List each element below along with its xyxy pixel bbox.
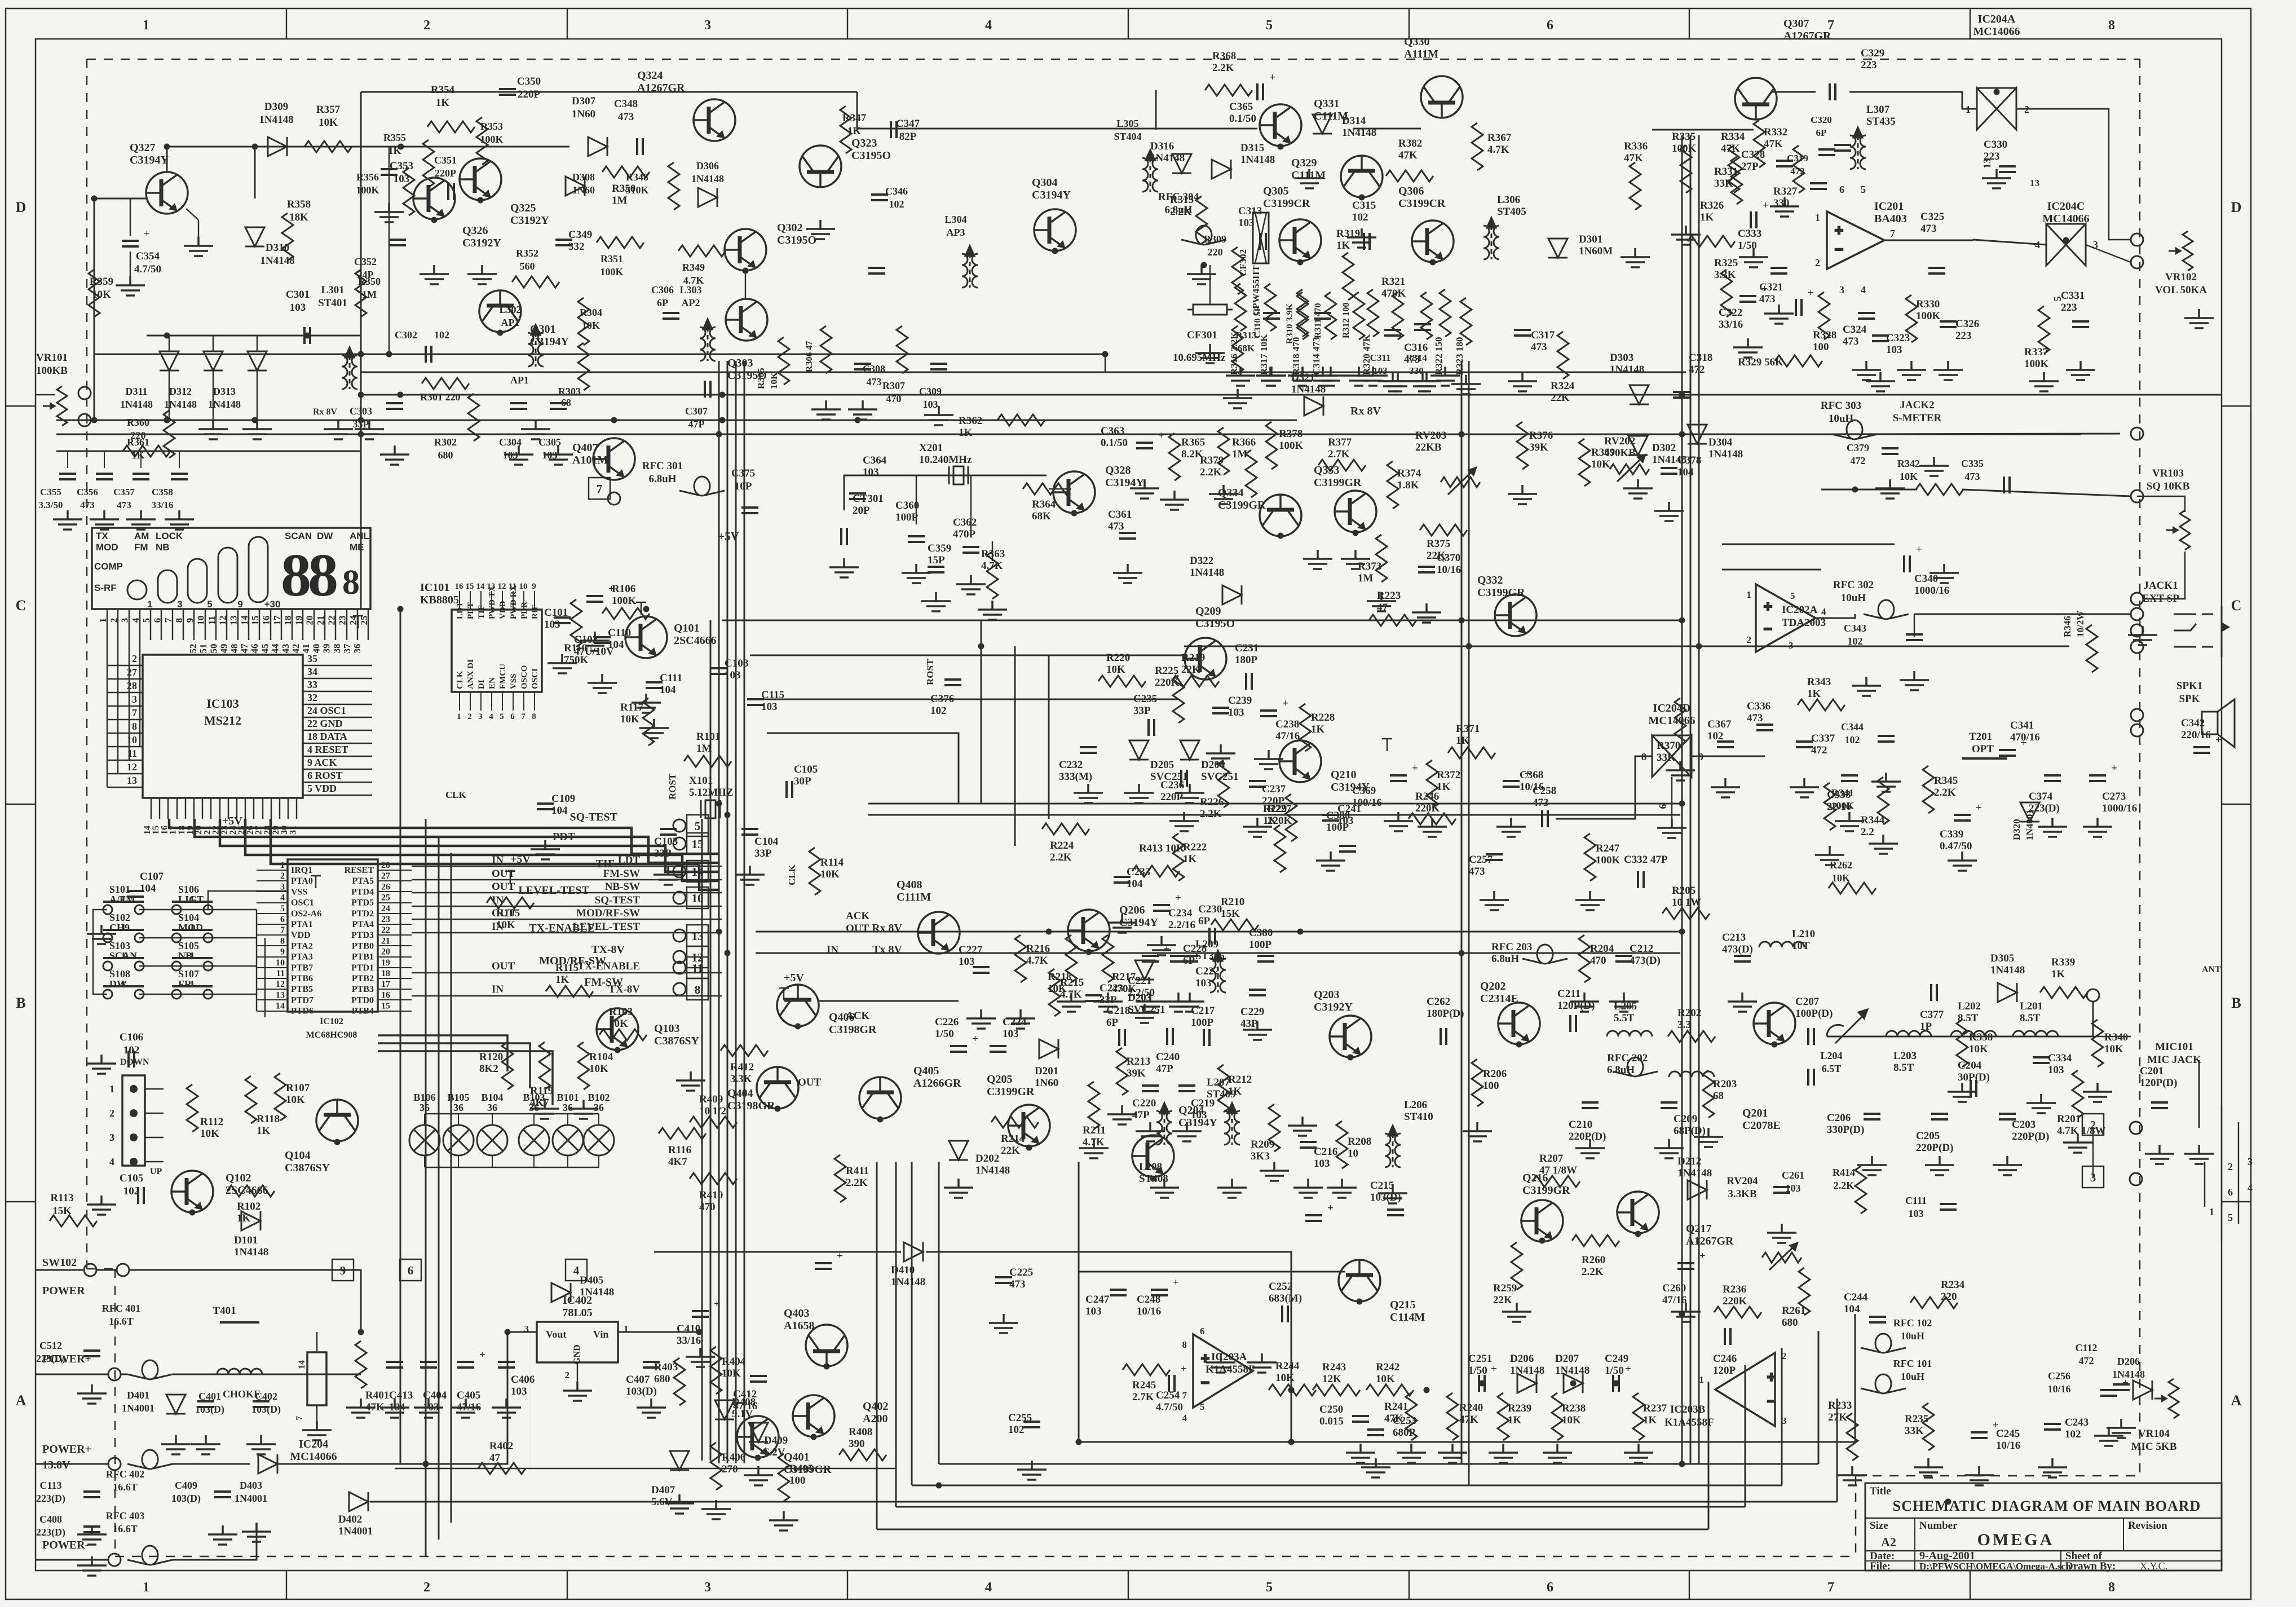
resistor R302 <box>468 394 479 441</box>
resistor R362 <box>997 414 1045 426</box>
svg-text:C336: C336 <box>1747 700 1770 712</box>
wire signal MOD/RF-SW <box>412 919 722 920</box>
svg-text:IC102: IC102 <box>320 1017 343 1026</box>
svg-text:EN: EN <box>488 677 497 689</box>
wire IC204C out <box>2086 245 2131 262</box>
svg-text:+: + <box>1767 1369 1776 1385</box>
IC103 bottom pin wire 18 <box>185 798 187 819</box>
choke RFC 203 <box>1522 945 1568 964</box>
ground <box>2063 1133 2092 1153</box>
resistor R364 <box>1023 483 1070 495</box>
svg-text:LOCK: LOCK <box>156 531 183 541</box>
capacitor C220 <box>1142 1086 1159 1091</box>
svg-text:2.2K: 2.2K <box>1582 1266 1604 1278</box>
svg-text:3: 3 <box>704 18 711 33</box>
wire signal FM-SW <box>412 879 722 881</box>
svg-text:MOD: MOD <box>96 542 118 553</box>
svg-text:X101: X101 <box>689 775 713 787</box>
ground <box>1993 1156 2022 1175</box>
svg-text:R101: R101 <box>696 731 720 743</box>
IC402 ground <box>563 1382 592 1401</box>
svg-text:10K: 10K <box>582 320 600 331</box>
switch S104 MOD <box>172 924 213 942</box>
IC204 pin7 wire <box>316 1405 318 1421</box>
ground <box>1107 1105 1137 1124</box>
svg-text:C101: C101 <box>544 607 568 619</box>
test terminal 14 <box>673 865 686 877</box>
svg-text:R403: R403 <box>654 1361 678 1373</box>
svg-text:RFC 302: RFC 302 <box>1833 579 1874 591</box>
svg-text:10: 10 <box>127 734 137 746</box>
svg-text:R318 470: R318 470 <box>1291 337 1301 375</box>
resistor R247 <box>1584 833 1596 881</box>
svg-text:Q328: Q328 <box>1105 464 1131 477</box>
svg-text:17: 17 <box>272 615 282 625</box>
capacitor C302 <box>426 346 431 363</box>
svg-text:R320 47K: R320 47K <box>1361 334 1372 375</box>
row tick right 3 <box>2222 1201 2251 1203</box>
resistor R204 <box>1579 935 1590 982</box>
IC103 bottom pin wire 30 <box>288 798 289 819</box>
svg-text:2: 2 <box>1747 634 1752 645</box>
svg-text:R371: R371 <box>1456 723 1480 735</box>
B102 bottom lead <box>598 1155 599 1167</box>
VR103 terminal a <box>2131 490 2143 502</box>
test terminal 15 <box>673 837 686 850</box>
LCD pin wire 11 <box>215 609 217 640</box>
mic jack body <box>2205 1105 2238 1241</box>
svg-text:LEVEL-TEST: LEVEL-TEST <box>573 921 641 933</box>
svg-text:Q303: Q303 <box>727 357 753 369</box>
ground <box>1256 367 1285 386</box>
svg-text:1: 1 <box>143 18 149 33</box>
svg-text:R316 2.2K: R316 2.2K <box>1229 332 1239 375</box>
svg-text:9: 9 <box>532 582 536 591</box>
resistor R106 <box>602 608 650 619</box>
resistor R374 <box>1387 461 1398 509</box>
svg-text:180P(D): 180P(D) <box>1427 1008 1464 1020</box>
op-amp IC203A K1A4558F <box>1193 1334 1253 1408</box>
wire signal LEVEL-TEST <box>412 932 722 934</box>
IC102 left pin wire 9 <box>257 956 288 958</box>
svg-text:PTD2: PTD2 <box>351 909 374 919</box>
svg-text:100K: 100K <box>1672 143 1697 155</box>
B103 top lead <box>533 1114 535 1125</box>
transistor Q307 A1267GR <box>1735 78 1777 120</box>
resistor R341 <box>1824 783 1835 830</box>
svg-text:IC204C: IC204C <box>2047 200 2085 213</box>
svg-text:104: 104 <box>140 883 156 894</box>
svg-text:36: 36 <box>563 1102 573 1113</box>
svg-text:6P: 6P <box>657 297 668 308</box>
svg-text:2.2K: 2.2K <box>1200 466 1222 478</box>
IC103 right pin wire 5 <box>303 795 372 796</box>
svg-text:C210: C210 <box>1569 1119 1592 1131</box>
svg-text:R240: R240 <box>1459 1402 1483 1414</box>
svg-text:8: 8 <box>1182 1339 1187 1350</box>
svg-text:R226: R226 <box>1200 796 1224 808</box>
svg-text:R206: R206 <box>1483 1068 1507 1080</box>
svg-text:82P: 82P <box>899 131 917 143</box>
transistor Q203 C3192Y <box>1330 1016 1371 1057</box>
capacitor C341 <box>1999 750 2016 756</box>
ground <box>1508 485 1537 504</box>
capacitor C111 <box>646 682 663 688</box>
svg-text:PDR: PDR <box>520 602 529 619</box>
svg-text:12: 12 <box>498 582 506 591</box>
IC102 right pin wire 20 <box>378 956 412 958</box>
capacitor C109 <box>537 804 554 809</box>
svg-text:R336: R336 <box>1624 140 1648 152</box>
IC101 bottom pin wire 3 <box>480 692 482 711</box>
resistor R219 <box>1172 676 1219 687</box>
switch S108 DW <box>103 981 144 999</box>
svg-text:Q304: Q304 <box>1032 177 1058 189</box>
wire vr103 bottom <box>2143 552 2185 599</box>
svg-text:R307: R307 <box>882 380 905 391</box>
capacitor C357 <box>133 474 149 479</box>
mic terminal 2 <box>2130 1122 2142 1134</box>
svg-text:ANT: ANT <box>2202 965 2221 974</box>
capacitor C235 <box>1149 719 1154 736</box>
potentiometer VR103 wiper <box>2166 530 2177 531</box>
svg-text:683(M): 683(M) <box>1269 1293 1302 1304</box>
svg-text:1K: 1K <box>847 125 862 137</box>
svg-text:6.2V: 6.2V <box>764 1446 785 1458</box>
svg-text:10uH: 10uH <box>1901 1371 1924 1382</box>
svg-text:12: 12 <box>217 616 228 625</box>
resistor R376 <box>1517 422 1528 469</box>
ground <box>1739 248 1768 267</box>
svg-text:C329: C329 <box>1861 47 1884 59</box>
svg-text:11: 11 <box>206 616 217 625</box>
resistor R338 <box>1957 1020 1968 1067</box>
ground <box>1463 1122 1492 1141</box>
svg-text:8: 8 <box>132 721 137 732</box>
svg-text:16: 16 <box>261 616 272 625</box>
svg-text:2.2K: 2.2K <box>1934 787 1956 799</box>
column tick bottom 2 <box>567 1571 568 1599</box>
IC103 left pin wire 7 <box>107 719 143 721</box>
resistor R348 <box>668 162 679 210</box>
wire left vertical bus <box>360 92 362 609</box>
resistor R307 <box>897 326 908 373</box>
svg-text:NB: NB <box>156 542 170 553</box>
svg-text:A1266GR: A1266GR <box>913 1077 961 1089</box>
svg-text:R411: R411 <box>846 1165 869 1177</box>
svg-text:12: 12 <box>127 761 137 773</box>
ground <box>2145 1145 2174 1164</box>
svg-text:R210: R210 <box>1221 896 1244 908</box>
resistor R218 <box>1066 935 1077 982</box>
ground <box>1175 993 1204 1012</box>
svg-text:1N4001: 1N4001 <box>235 1493 267 1504</box>
svg-text:4: 4 <box>2248 1182 2253 1193</box>
svg-text:7: 7 <box>1890 228 1895 239</box>
svg-text:SPK1: SPK1 <box>2176 680 2202 692</box>
svg-text:C375: C375 <box>731 467 755 479</box>
resistor R209 <box>1269 1104 1280 1152</box>
ground <box>531 840 560 859</box>
svg-text:6: 6 <box>510 712 515 721</box>
svg-text:4: 4 <box>489 712 493 721</box>
resistor R369 <box>1579 439 1590 486</box>
svg-text:OPT: OPT <box>1972 743 1994 755</box>
svg-text:680: 680 <box>438 449 453 461</box>
svg-text:IC202A: IC202A <box>1782 604 1818 616</box>
capacitor C108 <box>710 668 727 674</box>
svg-text:103: 103 <box>1085 1305 1102 1317</box>
capacitor C230 <box>1209 928 1215 945</box>
svg-text:D305: D305 <box>1990 952 2014 964</box>
LCD pin wire 2 <box>117 609 119 640</box>
svg-text:473: 473 <box>1404 354 1420 365</box>
crystal X201 <box>949 466 968 484</box>
diode D312 <box>204 351 223 370</box>
capacitor C313 <box>1260 233 1266 250</box>
ground <box>1288 367 1317 386</box>
svg-text:RFC 102: RFC 102 <box>1893 1317 1932 1329</box>
wire display pin drop 4 <box>139 640 141 747</box>
svg-text:68K: 68K <box>1238 343 1255 354</box>
svg-text:10K: 10K <box>1106 664 1125 676</box>
diode D306 <box>698 188 717 207</box>
svg-text:5: 5 <box>141 618 152 623</box>
svg-text:103: 103 <box>2048 1064 2064 1076</box>
transformer L302 AP1 <box>528 325 544 367</box>
svg-text:100K: 100K <box>1279 440 1304 452</box>
svg-text:Drawn By:: Drawn By: <box>2065 1560 2116 1572</box>
choke RFC304 <box>1181 226 1226 245</box>
capacitor C252 <box>1282 1305 1288 1322</box>
resistor R223 <box>1369 615 1416 626</box>
transistor Q302 C3195O <box>725 229 766 271</box>
svg-text:ACK: ACK <box>846 1010 869 1022</box>
svg-text:8: 8 <box>695 983 701 996</box>
svg-text:18: 18 <box>282 616 293 625</box>
svg-text:PTD3: PTD3 <box>351 930 374 940</box>
svg-text:R241: R241 <box>1384 1401 1408 1413</box>
svg-text:RFC 403: RFC 403 <box>106 1510 145 1521</box>
ground <box>1160 491 1189 510</box>
LCD pin wire 4 <box>139 609 141 640</box>
IC102 left pin wire 13 <box>257 999 288 1000</box>
svg-text:40: 40 <box>311 644 321 654</box>
svg-text:100P: 100P <box>1326 822 1349 833</box>
svg-text:C240: C240 <box>1156 1051 1180 1063</box>
test terminal 11 <box>673 961 686 974</box>
ground <box>1575 891 1605 910</box>
svg-text:D101: D101 <box>234 1234 258 1246</box>
svg-text:3.3/50: 3.3/50 <box>39 500 63 510</box>
svg-text:R235: R235 <box>1905 1413 1928 1425</box>
svg-text:R311 470: R311 470 <box>1313 303 1323 338</box>
capacitor C334 <box>2033 1057 2050 1063</box>
capacitor C234 <box>1153 905 1170 911</box>
IC103 left pin wire 2 <box>107 665 143 667</box>
svg-text:5 VDD: 5 VDD <box>307 783 337 794</box>
inductor L205 <box>1607 1031 1652 1036</box>
svg-text:Q408: Q408 <box>897 879 922 891</box>
B104 top lead <box>492 1114 493 1125</box>
svg-text:1N60M: 1N60M <box>1579 245 1613 257</box>
ground <box>2066 361 2095 380</box>
svg-text:223(D): 223(D) <box>36 1353 65 1365</box>
IC103 bottom pin wire 22 <box>219 798 221 819</box>
ground C308 <box>848 400 877 420</box>
svg-text:1N4148: 1N4148 <box>975 1165 1010 1176</box>
capacitor C336 <box>1756 725 1773 730</box>
trimmer RV202 arrow <box>1617 456 1644 482</box>
svg-text:4K7: 4K7 <box>530 1097 549 1109</box>
inductor L210 <box>1759 942 1804 947</box>
capacitor C413 <box>386 1362 403 1368</box>
svg-text:103(D): 103(D) <box>251 1404 281 1415</box>
svg-text:1N60: 1N60 <box>1035 1077 1058 1089</box>
svg-text:R358: R358 <box>287 199 311 210</box>
capacitor C330 <box>1999 166 2016 172</box>
resistor R331 <box>1731 157 1742 204</box>
svg-text:CH9: CH9 <box>109 922 130 933</box>
svg-text:47P: 47P <box>1132 1109 1150 1121</box>
ground <box>1358 367 1388 386</box>
svg-text:C215: C215 <box>1370 1180 1394 1192</box>
IC102 left pin wire 1 <box>257 870 288 871</box>
svg-text:VR102: VR102 <box>2165 271 2197 283</box>
svg-text:C107: C107 <box>140 871 164 883</box>
svg-text:RV202: RV202 <box>1604 435 1635 447</box>
capacitor C219 <box>1178 1086 1195 1091</box>
svg-text:PTB4: PTB4 <box>352 1007 374 1016</box>
svg-text:390: 390 <box>849 1438 865 1450</box>
svg-text:+: + <box>479 1349 485 1361</box>
capacitor C240 <box>1167 1028 1173 1045</box>
svg-text:473: 473 <box>1009 1278 1026 1290</box>
svg-text:D302: D302 <box>1652 442 1676 454</box>
svg-text:103: 103 <box>544 619 560 630</box>
svg-text:10K: 10K <box>286 1094 305 1106</box>
resistor R311 <box>1325 292 1336 339</box>
capacitor C303 <box>386 403 403 409</box>
svg-text:S108: S108 <box>109 968 130 980</box>
lamp B106 <box>409 1125 440 1155</box>
VR101 terminal 2 <box>78 414 91 426</box>
diode D405 <box>551 1283 571 1302</box>
svg-text:2: 2 <box>2228 1161 2233 1172</box>
svg-text:PTB1: PTB1 <box>352 952 374 962</box>
IC102 right pin wire 25 <box>378 902 412 903</box>
svg-text:R345: R345 <box>1934 775 1958 787</box>
svg-text:473: 473 <box>80 500 95 510</box>
svg-text:Q103: Q103 <box>654 1022 680 1035</box>
wire C356 top <box>104 451 105 468</box>
svg-text:47 1/8W: 47 1/8W <box>1539 1165 1577 1176</box>
svg-text:+5V: +5V <box>784 972 804 984</box>
svg-text:C365: C365 <box>1229 101 1253 113</box>
svg-text:472: 472 <box>2079 1355 2094 1366</box>
test connector 9 <box>332 1259 354 1281</box>
resistor R304 <box>578 298 589 345</box>
svg-text:1M: 1M <box>696 743 712 755</box>
svg-text:R304: R304 <box>580 307 602 318</box>
svg-text:2: 2 <box>108 618 119 623</box>
capacitor C380 <box>1257 956 1274 961</box>
resistor R350 area <box>355 270 367 317</box>
resistor R216 <box>1015 935 1026 982</box>
resistor R363 <box>987 552 998 599</box>
ground <box>588 674 617 693</box>
LCD pin wire 12 <box>226 609 228 640</box>
svg-text:10K: 10K <box>92 289 111 301</box>
svg-text:8K2: 8K2 <box>479 1063 498 1075</box>
IC103 right pin wire 34 <box>303 678 372 680</box>
ground <box>1621 248 1650 267</box>
resistor R207 <box>1533 1176 1580 1187</box>
svg-text:PTD1: PTD1 <box>351 963 374 973</box>
svg-text:R414: R414 <box>1833 1167 1855 1178</box>
svg-text:R305: R305 <box>756 368 766 389</box>
svg-text:100K: 100K <box>1596 854 1621 866</box>
svg-text:AP1: AP1 <box>501 317 520 328</box>
svg-text:R328: R328 <box>1813 329 1836 341</box>
resistor R332 <box>1754 120 1765 167</box>
svg-text:D206: D206 <box>1510 1353 1534 1365</box>
svg-text:68K: 68K <box>1032 510 1051 522</box>
svg-text:R332: R332 <box>1764 126 1787 138</box>
capacitor C320 <box>1834 145 1851 151</box>
ground <box>1093 993 1123 1012</box>
svg-text:4: 4 <box>280 893 285 903</box>
svg-text:Q210: Q210 <box>1331 769 1357 781</box>
svg-text:Q324: Q324 <box>637 69 663 82</box>
ground <box>1508 372 1537 391</box>
IC103 left pin wire 27 <box>107 678 143 680</box>
capacitor ~ <box>1314 313 1331 319</box>
column tick bottom 3 <box>847 1571 849 1599</box>
capacitor C331 <box>2072 321 2089 327</box>
svg-text:4: 4 <box>985 18 992 33</box>
IC101 top pin wire 14 <box>480 591 482 610</box>
svg-text:Q403: Q403 <box>784 1307 810 1320</box>
svg-text:C361: C361 <box>1108 509 1132 521</box>
svg-text:PWD TX: PWD TX <box>488 586 497 619</box>
svg-text:4: 4 <box>573 1264 580 1277</box>
ground <box>1654 1139 1684 1158</box>
svg-text:103: 103 <box>959 956 975 968</box>
svg-text:R103: R103 <box>609 1006 633 1018</box>
svg-text:4.7K: 4.7K <box>1487 144 1509 156</box>
transistor Q209 C3195O <box>1185 638 1226 680</box>
svg-text:R224: R224 <box>1050 840 1074 852</box>
svg-text:1N4148: 1N4148 <box>1240 154 1275 166</box>
svg-text:COMP: COMP <box>94 561 123 572</box>
svg-text:Vout: Vout <box>546 1329 566 1340</box>
svg-text:103: 103 <box>863 466 879 478</box>
title block outline <box>1865 1483 2222 1571</box>
svg-text:C207: C207 <box>1795 996 1820 1008</box>
svg-text:15K: 15K <box>1221 908 1240 920</box>
svg-text:C261: C261 <box>1782 1170 1804 1181</box>
IC204 MC14066 power pins box <box>307 1352 326 1405</box>
choke RFC301 <box>679 477 725 496</box>
svg-text:1K: 1K <box>1700 211 1714 223</box>
ground CF301 <box>1195 344 1225 363</box>
transistor Q406 C3198GR <box>777 985 819 1026</box>
svg-text:1K: 1K <box>1336 240 1350 252</box>
ground <box>1260 1162 1289 1181</box>
svg-text:C3199GR: C3199GR <box>1218 499 1266 511</box>
LCD pin wire 25 <box>368 609 369 640</box>
